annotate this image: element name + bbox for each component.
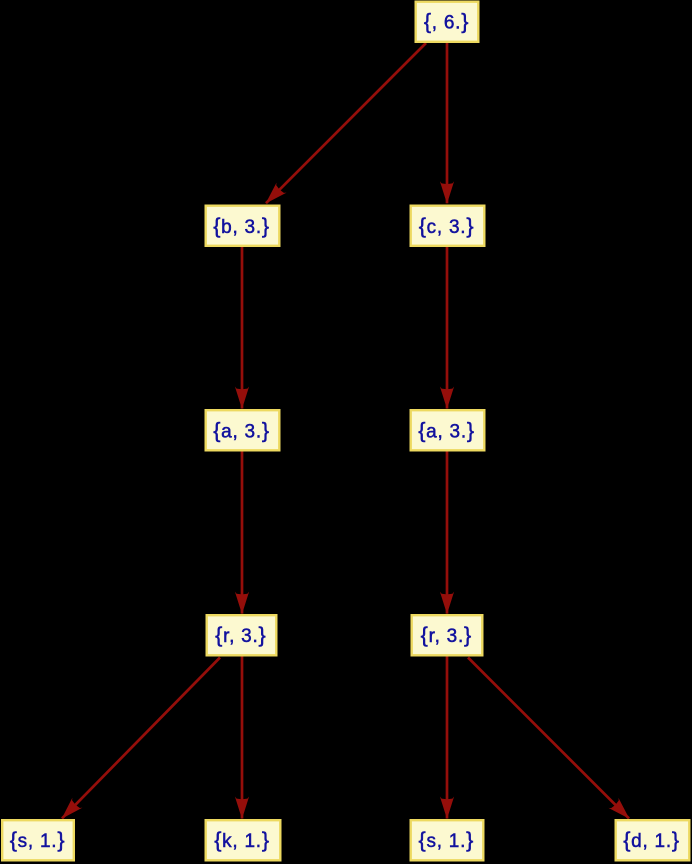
node a right {a, 3.} (411, 410, 485, 450)
edge r->s right (446, 656, 449, 819)
edge a->r left (241, 451, 244, 614)
edge root->b (266, 43, 426, 203)
edge b->a (241, 246, 244, 409)
node k {k, 1.} (206, 820, 281, 860)
svg-text:{a, 3.}: {a, 3.} (213, 418, 270, 442)
node root {, 6.} (416, 2, 479, 42)
node s left {s, 1.} (2, 820, 74, 860)
svg-text:{c, 3.}: {c, 3.} (419, 214, 475, 238)
svg-text:{r, 3.}: {r, 3.} (421, 623, 472, 647)
svg-text:{b, 3.}: {b, 3.} (213, 214, 270, 238)
edge r->k (241, 656, 244, 819)
svg-text:{s, 1.}: {s, 1.} (419, 828, 475, 852)
node r left {r, 3.} (207, 615, 277, 655)
node b {b, 3.} (206, 206, 280, 246)
svg-text:{k, 1.}: {k, 1.} (214, 828, 270, 852)
edge root->c (446, 42, 449, 203)
node r right {r, 3.} (412, 615, 483, 655)
svg-text:{a, 3.}: {a, 3.} (418, 418, 475, 442)
node a left {a, 3.} (206, 410, 280, 450)
svg-text:{, 6.}: {, 6.} (424, 10, 469, 34)
node s right {s, 1.} (411, 820, 484, 860)
node c {c, 3.} (411, 206, 485, 246)
svg-text:{d, 1.}: {d, 1.} (623, 828, 680, 852)
edge r->d (468, 658, 629, 819)
svg-text:{r, 3.}: {r, 3.} (215, 623, 266, 647)
svg-text:{s, 1.}: {s, 1.} (10, 828, 66, 852)
edge r->s left (62, 658, 220, 819)
edge c->a (446, 246, 449, 409)
node d {d, 1.} (616, 820, 690, 860)
edge a->r right (446, 451, 449, 614)
